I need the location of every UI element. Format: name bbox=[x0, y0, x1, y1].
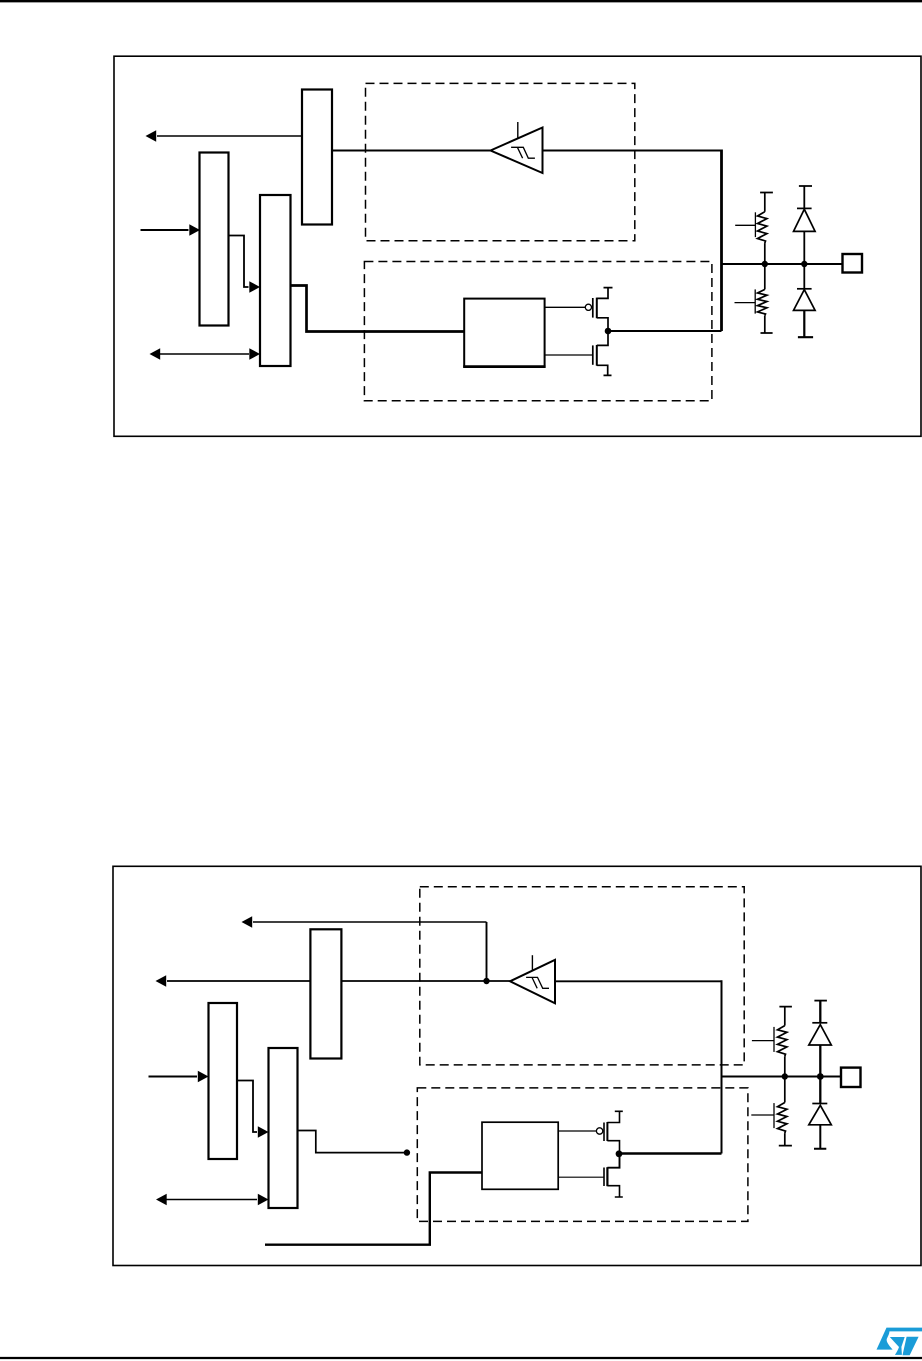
diode D1 (to VDD) bbox=[794, 186, 816, 264]
wire: output register stub to driver net bbox=[298, 1131, 407, 1153]
dashed box: output driver bbox=[364, 262, 712, 401]
dashed box: input driver bbox=[420, 887, 744, 1065]
wire: write input arrow bbox=[141, 224, 201, 236]
transistor Q3 (P-MOS) bbox=[558, 1111, 623, 1154]
resistor R4 (pull-down, switchable) bbox=[751, 1077, 792, 1146]
block: input data register bbox=[302, 90, 332, 225]
resistor R2 (pull-down, switchable) bbox=[735, 264, 773, 333]
transistor Q2 (N-MOS) bbox=[545, 331, 612, 375]
pad: I/O pin bbox=[843, 254, 863, 273]
dashed box: output driver bbox=[417, 1088, 748, 1222]
wire: write input arrow bbox=[149, 1071, 209, 1083]
block: output control / gate driver bbox=[464, 299, 544, 367]
diode D3 (to VDD) bbox=[809, 1001, 832, 1077]
wire: output data arrow (to left) bbox=[146, 130, 303, 142]
pad: I/O pin bbox=[841, 1068, 861, 1087]
resistor R3 (pull-up, switchable) bbox=[752, 1007, 792, 1077]
footer rule bbox=[0, 1357, 922, 1359]
wire: read/write bidirectional arrow bbox=[156, 1194, 269, 1206]
wire: read/write bidirectional arrow bbox=[150, 348, 261, 360]
node: schmitt output junction bbox=[483, 978, 489, 984]
wire: register to output register (step with arrow) bbox=[229, 236, 261, 293]
figure 1 frame bbox=[114, 56, 921, 436]
wire: enable line from bottom left (thick step) bbox=[265, 1173, 482, 1245]
logo: ST (top bar and S body) bbox=[877, 1328, 922, 1350]
wire: alternate output arrow (to left, top) bbox=[242, 916, 487, 928]
node: junction on pad net (resistor) bbox=[762, 261, 768, 267]
block: write register bbox=[200, 153, 229, 326]
node: junction on pad net (diode) bbox=[801, 261, 807, 267]
wire: mosfet output to pad net bbox=[608, 330, 722, 332]
block: output control / gate driver bbox=[482, 1122, 558, 1189]
node: push-pull output junction bbox=[605, 328, 612, 335]
wire: schmitt output to register bbox=[332, 150, 491, 152]
wire: register to output register (step with arrow) bbox=[237, 1081, 269, 1138]
diode D4 (to VSS) bbox=[809, 1077, 832, 1149]
node: junction on pad net (diode) bbox=[817, 1073, 824, 1080]
wire: vertical to pad net bbox=[721, 980, 723, 1153]
transistor Q1 (P-MOS) bbox=[545, 288, 613, 331]
block: input data register bbox=[310, 929, 341, 1058]
wire: vertical from top arrow to schmitt output bbox=[486, 922, 488, 981]
dashed box: input driver bbox=[366, 83, 635, 240]
schmitt trigger U2 bbox=[510, 955, 555, 1003]
wire: mosfet output to pad net (thick) bbox=[619, 1152, 722, 1155]
wire: schmitt input line bbox=[543, 150, 722, 152]
logo: ST (middle wedge and hook) bbox=[890, 1337, 905, 1355]
node: junction on pad net (resistor) bbox=[782, 1073, 788, 1079]
logo: ST (T stem) bbox=[903, 1337, 919, 1356]
wire: thick vertical to pad net bbox=[720, 150, 723, 332]
wire: pad net horizontal bbox=[722, 1076, 842, 1078]
wire: schmitt input line bbox=[555, 980, 722, 982]
schmitt trigger U1 bbox=[491, 122, 543, 173]
block: output data register bbox=[260, 195, 291, 366]
node: push-pull output junction bbox=[616, 1150, 623, 1157]
wire: schmitt output arrow (to left) bbox=[156, 975, 511, 987]
transistor Q4 (N-MOS) bbox=[558, 1154, 623, 1197]
figure 2 frame bbox=[113, 866, 921, 1265]
block: write register bbox=[209, 1003, 238, 1159]
wire: pad net horizontal bbox=[722, 263, 843, 265]
block: output data register bbox=[269, 1048, 298, 1208]
resistor R1 (pull-up, switchable) bbox=[735, 193, 773, 265]
header rule bbox=[0, 0, 922, 2]
node: stub terminal dot bbox=[404, 1149, 410, 1155]
wire: output register to driver (thick step) bbox=[291, 286, 465, 332]
diode D2 (to VSS) bbox=[794, 264, 816, 337]
